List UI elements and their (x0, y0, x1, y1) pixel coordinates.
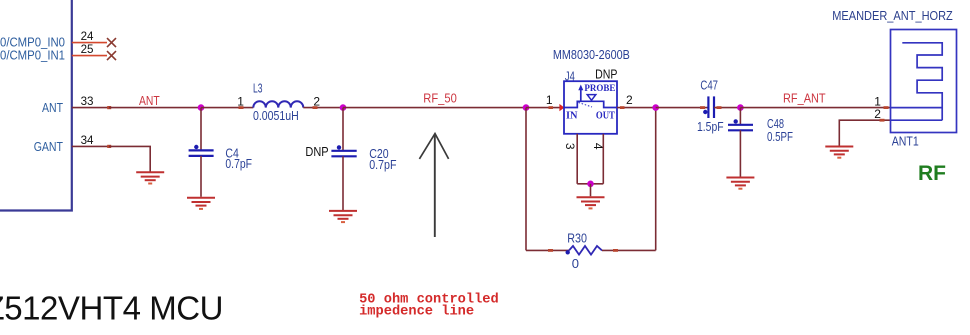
svg-text:25: 25 (81, 42, 94, 56)
svg-text:ANT: ANT (42, 101, 63, 115)
svg-text:0/CMP0_IN0: 0/CMP0_IN0 (0, 36, 65, 50)
capacitor C4 0.7pF (189, 145, 252, 171)
wire C48 to ground (739, 130, 741, 176)
wire node D to C47 (656, 106, 709, 109)
wire GANT to ground (109, 146, 150, 171)
svg-text:MM8030-2600B: MM8030-2600B (553, 47, 630, 62)
ground (C48) (726, 178, 754, 189)
wire C47 to node F (714, 106, 740, 109)
node A junction (ANT / C4) (198, 104, 205, 111)
svg-text:RF_50: RF_50 (423, 92, 457, 106)
svg-text:R30: R30 (567, 230, 587, 245)
wire to R30 left (526, 249, 569, 252)
svg-text:0/CMP0_IN1: 0/CMP0_IN1 (0, 49, 65, 63)
wire ANT1 pin 2 to ground (839, 119, 890, 146)
svg-text:1: 1 (237, 94, 244, 108)
wire node C to J4 pin 1 (526, 106, 560, 109)
svg-text:4: 4 (591, 143, 605, 150)
svg-text:1: 1 (546, 93, 553, 107)
svg-text:impedence line: impedence line (359, 305, 474, 320)
pin 4 of J4 (591, 134, 605, 184)
node B junction (C20) (340, 104, 347, 111)
wire node A down to C4 (200, 108, 202, 150)
ground (C20) (329, 211, 357, 222)
svg-text:C47: C47 (700, 78, 718, 93)
wire L3 to node B (303, 106, 343, 109)
svg-text:DNP: DNP (595, 67, 617, 82)
capacitor C48 0.5PF (728, 116, 793, 144)
svg-text:34: 34 (81, 133, 94, 147)
wire node F to ANT1 pin 1 (740, 106, 890, 109)
wire node E to ground (590, 184, 592, 197)
pin 3 of J4 (563, 134, 577, 184)
wire node B down to C20 (342, 108, 344, 150)
annotation arrow (419, 134, 448, 237)
svg-text:0: 0 (572, 256, 579, 271)
inductor L3 0.0051uH (237, 81, 320, 123)
node F junction (C48) (737, 104, 744, 111)
wire joining pins 3,4 (577, 183, 603, 185)
svg-text:0.7pF: 0.7pF (369, 157, 396, 172)
svg-text:IN: IN (566, 109, 578, 121)
wire J4 pin 2 to node D (617, 106, 656, 109)
ground (GANT) (136, 172, 164, 183)
wire node D down to R30 (655, 108, 657, 251)
MCU U1 box (0, 0, 72, 211)
svg-text:ANT1: ANT1 (892, 133, 919, 148)
node E junction (pins 3,4 to ground) (587, 181, 594, 188)
svg-text:RF: RF (918, 162, 946, 185)
svg-text:ANT: ANT (139, 94, 160, 108)
pin 33 ANT (42, 94, 111, 115)
wire node A to L3 (201, 106, 253, 109)
svg-text:GANT: GANT (34, 140, 64, 154)
svg-text:3: 3 (563, 143, 577, 150)
svg-text:L3: L3 (253, 81, 263, 96)
no-connect X on pin 24 (107, 38, 116, 47)
ground (ANT1 pin 2) (825, 147, 853, 158)
wire node C down to R30 (525, 108, 527, 251)
wire ANT pin to C4 node (109, 107, 201, 109)
wire R30 right (602, 249, 656, 252)
svg-text:2: 2 (626, 93, 633, 107)
svg-text:DNP: DNP (305, 144, 328, 159)
pin 24 (0/CMP0_IN0) (0, 29, 107, 50)
svg-text:0.7pF: 0.7pF (225, 156, 252, 171)
wire C4 to ground (200, 156, 202, 197)
svg-text:OUT: OUT (596, 109, 616, 121)
connector J4 body (564, 81, 617, 134)
pin arrow into J4 pin 1 (559, 104, 564, 111)
wire node F down to C48 (739, 108, 741, 124)
svg-text:24: 24 (81, 29, 94, 43)
wire node B to node C (343, 107, 526, 109)
pin 34 GANT (34, 133, 112, 154)
note: 50 ohm controlled impedence line (359, 292, 499, 319)
antenna ANT1 body (891, 30, 957, 133)
svg-text:0.5PF: 0.5PF (767, 129, 793, 144)
svg-text:0.0051uH: 0.0051uH (253, 108, 299, 123)
node C junction (before J4) (523, 104, 530, 111)
svg-text:Z512VHT4 MCU: Z512VHT4 MCU (0, 289, 223, 326)
capacitor C47 1.5pF (series) (697, 78, 724, 134)
ground (J4 pins 3,4) (577, 197, 605, 208)
svg-text:2: 2 (874, 107, 881, 121)
no-connect X on pin 25 (107, 51, 116, 60)
svg-text:RF_ANT: RF_ANT (783, 91, 826, 105)
resistor R30 0 (566, 230, 603, 271)
svg-text:1.5pF: 1.5pF (697, 119, 724, 134)
svg-text:MEANDER_ANT_HORZ: MEANDER_ANT_HORZ (832, 8, 953, 23)
svg-text:PROBE: PROBE (584, 83, 615, 94)
capacitor C20 0.7pF (331, 145, 396, 172)
node D junction (after J4) (652, 104, 659, 111)
pin 25 (0/CMP0_IN1) (0, 42, 107, 63)
svg-text:33: 33 (81, 94, 94, 108)
ground (C4) (187, 198, 215, 209)
wire C20 to ground (342, 156, 344, 210)
